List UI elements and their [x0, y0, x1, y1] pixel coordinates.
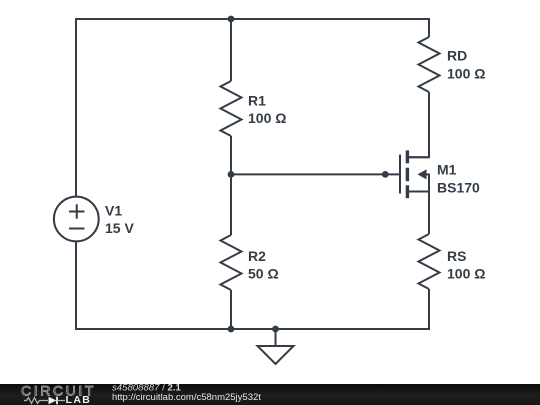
transistor M1 source lead — [409, 174, 429, 192]
svg-text:http://circuitlab.com/c58nm25j: http://circuitlab.com/c58nm25jy532t — [112, 392, 261, 403]
svg-text:100 Ω: 100 Ω — [447, 66, 485, 82]
wire left rail upper — [75, 18, 77, 197]
wire bottom rail — [76, 328, 429, 330]
resistor RS — [419, 234, 440, 289]
transistor M1 body channel segment — [406, 168, 409, 182]
node top junction — [228, 16, 235, 23]
svg-text:BS170: BS170 — [437, 180, 480, 196]
svg-text:15 V: 15 V — [105, 220, 134, 236]
svg-text:50 Ω: 50 Ω — [248, 266, 279, 282]
wire left rail lower — [75, 241, 77, 330]
resistor R1 — [221, 81, 242, 136]
wire middle branch upper — [230, 18, 232, 81]
svg-text:100 Ω: 100 Ω — [248, 110, 286, 126]
voltage source V1 — [54, 197, 99, 242]
ground — [258, 329, 294, 364]
svg-text:V1: V1 — [105, 203, 122, 219]
transistor M1 drain channel segment — [406, 150, 409, 163]
svg-text:100 Ω: 100 Ω — [447, 266, 485, 282]
logo squiggle resistor — [24, 398, 48, 404]
transistor M1 source channel segment — [406, 185, 409, 198]
transistor M1 body arrow — [418, 169, 430, 179]
node gate tap junction — [228, 171, 235, 178]
resistor R2 — [221, 235, 242, 290]
transistor M1 drain lead — [409, 156, 429, 158]
logo squiggle diode — [49, 397, 66, 405]
svg-text:R1: R1 — [248, 93, 266, 109]
svg-text:M1: M1 — [437, 162, 457, 178]
svg-text:RD: RD — [447, 48, 467, 64]
resistor RD — [419, 37, 440, 92]
wire top rail — [76, 18, 429, 20]
node ground tap junction — [272, 326, 279, 333]
svg-text:R2: R2 — [248, 248, 266, 264]
wire right rail upper — [428, 18, 430, 37]
svg-text:LAB: LAB — [66, 394, 92, 405]
node gate terminal — [382, 171, 389, 178]
wire source to RS — [428, 174, 430, 235]
wire middle branch lower — [230, 290, 232, 330]
transistor M1 gate bar — [399, 155, 401, 194]
footer bar — [0, 384, 540, 405]
wire middle branch mid — [230, 136, 232, 235]
wire RS to bottom rail — [428, 289, 430, 330]
wire gate — [231, 173, 400, 175]
node bottom middle junction — [228, 326, 235, 333]
svg-text:RS: RS — [447, 248, 466, 264]
wire RD to drain — [409, 92, 429, 157]
